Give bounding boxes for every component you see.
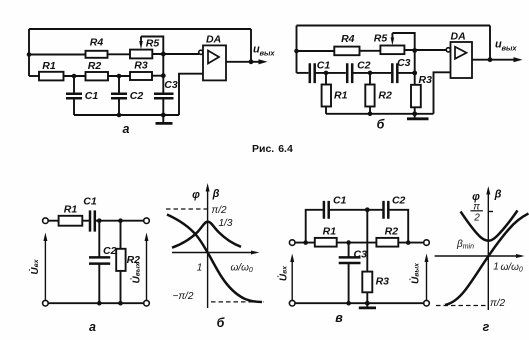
resistor R3 vertical (circuit v) — [366, 210, 368, 272]
node ground junction (circuit v) — [365, 301, 370, 306]
ground (circuit b) — [414, 114, 416, 118]
wire R2-R3 (circuit a) — [108, 75, 130, 77]
svg-text:π/2: π/2 — [212, 205, 227, 216]
svg-text:в: в — [335, 311, 343, 325]
wire bottom rail (circuit a2) — [48, 302, 144, 304]
capacitor C1 (circuit a2) — [90, 210, 95, 231]
svg-text:R1: R1 — [64, 204, 78, 216]
node C2 bottom (circuit a) — [117, 113, 122, 118]
svg-text:R2: R2 — [385, 226, 399, 238]
svg-text:Рис.6.4: Рис.6.4 — [252, 143, 293, 155]
capacitor C2 vertical (circuit a2) — [98, 221, 100, 304]
wire top feedback (circuit a) — [29, 28, 251, 30]
node C1-C2 R3 junction (circuit v) — [365, 207, 370, 212]
R5 wiper arrow and loop (circuit b) — [391, 33, 393, 38]
terminal output bottom (circuit v) — [424, 300, 430, 306]
node R2-R3 junction (circuit a) — [117, 74, 122, 79]
wire R4-R5 (circuit b) — [360, 50, 381, 52]
capacitor C2 (circuit b) — [347, 63, 352, 83]
op-amp U DA (circuit a) — [203, 45, 226, 80]
wire feedback vertical (circuit b) — [489, 26, 491, 60]
curve beta bell (graph b) — [172, 222, 241, 248]
svg-text:R3: R3 — [376, 276, 390, 288]
wire R1 row left (circuit a) — [29, 75, 39, 77]
curve phi ascending (graph g) — [445, 214, 529, 306]
svg-text:C3: C3 — [354, 249, 368, 261]
arrow U out (circuit v) — [426, 261, 428, 300]
ground (circuit v) — [366, 303, 368, 307]
node R2 bottom (circuit b) — [368, 112, 373, 117]
wire top feedback (circuit b) — [297, 25, 491, 27]
svg-text:R2: R2 — [88, 60, 102, 72]
svg-text:R3: R3 — [134, 60, 148, 72]
svg-text:г: г — [483, 320, 490, 334]
arrow U in (circuit v) — [291, 261, 293, 300]
svg-text:1: 1 — [197, 263, 203, 274]
node C3 junction (circuit v) — [346, 240, 351, 245]
node output feedback (circuit a) — [249, 59, 254, 64]
resistor R2 vertical (circuit a2) — [120, 221, 122, 249]
capacitor C1 (circuit b) — [310, 63, 315, 83]
svg-text:R1: R1 — [42, 60, 56, 72]
svg-text:φ: φ — [192, 189, 200, 201]
resistor R5 trimmer (circuit a) — [130, 50, 152, 59]
svg-text:C1: C1 — [317, 60, 331, 72]
capacitor C2 (circuit a) — [118, 76, 120, 115]
wire C3 to vertical (circuit b) — [397, 72, 414, 74]
svg-text:а: а — [89, 320, 96, 334]
x-axis (graph g) — [435, 255, 521, 257]
wire up to C row (circuit v) — [306, 210, 323, 243]
wire C1-C2 (circuit v) — [329, 209, 384, 211]
wire R1-R2 (circuit a) — [64, 75, 86, 77]
svg-text:DA: DA — [206, 34, 221, 46]
resistor R1 vertical (circuit b) — [325, 73, 327, 85]
svg-text:а: а — [123, 122, 130, 136]
wire output (circuit b) — [472, 59, 515, 61]
y-axis (graph g) — [487, 190, 489, 310]
resistor R1 (circuit a2) — [59, 216, 83, 226]
svg-text:C3: C3 — [164, 79, 178, 91]
svg-text:β: β — [494, 189, 502, 201]
curve phi descending (graph b) — [167, 215, 262, 303]
resistor R1 (circuit a) — [39, 72, 64, 81]
terminal input top (circuit v) — [289, 240, 295, 246]
arrow U in (circuit a2) — [44, 240, 46, 300]
capacitor C2 (circuit v) — [384, 201, 389, 219]
capacitor C1 (circuit a) — [73, 76, 75, 115]
svg-text:вых: вых — [260, 49, 276, 58]
node R2 top junction (circuit a2) — [118, 218, 123, 223]
node C2-R2 junction (circuit b) — [368, 71, 373, 76]
capacitor C3 (circuit a) — [154, 94, 174, 98]
terminal output top (circuit a2) — [144, 218, 150, 224]
wire C2 down to output row (circuit v) — [388, 210, 408, 243]
wire input row (circuit v) — [295, 242, 315, 244]
resistor R2 (circuit a) — [86, 72, 109, 80]
node R2 bottom (circuit a2) — [118, 301, 123, 306]
wire to R4 (circuit a) — [29, 54, 86, 56]
dashed -pi/2 level (graph b) — [211, 301, 264, 303]
curve beta U-shape (graph g) — [461, 211, 518, 241]
node R3/C3 vertical junction (circuit a) — [161, 73, 166, 78]
wire R2 to output (circuit v) — [398, 242, 423, 244]
wire left vertical (circuit b) — [296, 26, 298, 73]
node R5/R3/C3 junction (circuit a) — [161, 52, 166, 57]
wire R1-R2 (circuit v) — [337, 242, 377, 244]
svg-text:R5: R5 — [374, 33, 388, 45]
wire R4-R5 (circuit a) — [108, 53, 131, 55]
svg-text:β: β — [212, 188, 220, 200]
wire C1 to output (circuit a2) — [95, 220, 144, 222]
svg-text:2: 2 — [473, 213, 480, 224]
wire feedback vertical (circuit a) — [250, 29, 252, 62]
svg-text:1: 1 — [493, 262, 499, 273]
svg-text:C1: C1 — [333, 195, 347, 207]
terminal input bottom (circuit v) — [289, 300, 295, 306]
resistor R4 (circuit a) — [86, 51, 108, 58]
wire op-amp second input (circuit a) — [179, 74, 203, 115]
wire output (circuit a) — [226, 61, 260, 63]
wire input to R1 (circuit a2) — [48, 220, 58, 222]
svg-text:R2: R2 — [378, 90, 392, 102]
svg-text:R5: R5 — [146, 38, 160, 50]
dashed -pi/2 level (graph g) — [436, 305, 487, 307]
resistor R4 (circuit b) — [334, 47, 359, 56]
wire R5 to op-amp input (circuit a) — [152, 53, 199, 55]
node output feedback (circuit b) — [488, 57, 493, 62]
svg-text:б: б — [217, 316, 226, 330]
wire to R4 (circuit b) — [297, 50, 335, 52]
node C2 bottom (circuit a2) — [97, 301, 102, 306]
svg-text:DA: DA — [451, 31, 466, 43]
svg-text:C2: C2 — [130, 90, 144, 102]
svg-text:C2: C2 — [392, 195, 406, 207]
svg-text:R3: R3 — [419, 74, 433, 86]
svg-text:−π/2: −π/2 — [173, 291, 194, 302]
R5 wiper arrow and loop (circuit a) — [140, 37, 142, 42]
terminal output bottom (circuit a2) — [144, 300, 150, 306]
svg-text:C1: C1 — [83, 196, 97, 208]
op-amp DA (circuit b) — [451, 42, 473, 78]
terminal output top (circuit v) — [424, 240, 430, 246]
node C3 bottom (circuit v) — [346, 301, 351, 306]
node C2 branch junction (circuit v) — [406, 240, 411, 245]
node R1-R2 junction (circuit a) — [72, 74, 77, 79]
svg-text:R1: R1 — [334, 90, 348, 102]
capacitor C1 (circuit v) — [324, 201, 329, 219]
svg-text:π/2: π/2 — [490, 298, 505, 309]
terminal input top (circuit a2) — [43, 218, 49, 224]
resistor R5 trimmer (circuit b) — [380, 46, 404, 55]
y-axis (graph b) — [207, 187, 209, 308]
resistor R2 vertical (circuit b) — [369, 73, 371, 85]
node C3/R3 junction (circuit b) — [412, 71, 417, 76]
svg-text:вых: вых — [502, 44, 518, 53]
wire op-amp second input (circuit b) — [434, 72, 451, 114]
resistor R1 (circuit v) — [315, 238, 337, 247]
wire bottom rail (circuit a) — [74, 114, 179, 116]
node ground junction (circuit b) — [412, 111, 417, 116]
svg-text:1/3: 1/3 — [219, 218, 233, 229]
x-axis (graph b) — [172, 252, 256, 254]
wire C row left (circuit b) — [297, 72, 309, 74]
wire C2-C3 (circuit b) — [352, 72, 391, 74]
svg-text:R4: R4 — [90, 37, 104, 49]
wire vertical through C3 (circuit a) — [162, 54, 164, 115]
ground (circuit a) — [162, 115, 164, 123]
wire bottom rail (circuit v) — [295, 302, 424, 304]
tick pi/2 (graph g) — [488, 211, 493, 213]
node left junction (circuit b) — [294, 49, 299, 54]
node R5/R3 junction (circuit b) — [412, 48, 417, 53]
node ground junction (circuit a) — [161, 113, 166, 118]
svg-text:R1: R1 — [323, 226, 337, 238]
wire R1 to C1 (circuit a2) — [82, 220, 90, 222]
svg-text:C3: C3 — [397, 57, 411, 69]
node C2 top junction (circuit a2) — [97, 218, 102, 223]
svg-text:C2: C2 — [103, 245, 117, 257]
arrow U out (circuit a2) — [146, 240, 148, 300]
resistor R3 (circuit a) — [130, 72, 152, 80]
node C1-R1 junction (circuit b) — [324, 71, 329, 76]
svg-text:R4: R4 — [341, 33, 355, 45]
wire R3 to vertical (circuit a) — [152, 75, 163, 77]
node left junction (circuit a) — [27, 52, 32, 57]
wire R5 to op-amp input (circuit b) — [404, 49, 446, 51]
terminal input bottom (circuit a2) — [43, 300, 49, 306]
svg-text:C1: C1 — [85, 90, 99, 102]
svg-text:б: б — [377, 118, 386, 132]
resistor R2 (circuit v) — [376, 238, 398, 247]
capacitor C3 vertical (circuit v) — [348, 243, 350, 304]
dashed pi/2 level (graph b) — [166, 208, 208, 210]
node input branch (circuit v) — [303, 240, 308, 245]
wire bottom rail (circuit b) — [326, 113, 434, 115]
wire C1-C2 (circuit b) — [315, 72, 346, 74]
wire left vertical (circuit a) — [28, 29, 30, 76]
resistor R3 vertical (circuit b) — [414, 50, 416, 84]
svg-text:C2: C2 — [357, 60, 371, 72]
capacitor C3 (circuit b) — [392, 63, 397, 83]
